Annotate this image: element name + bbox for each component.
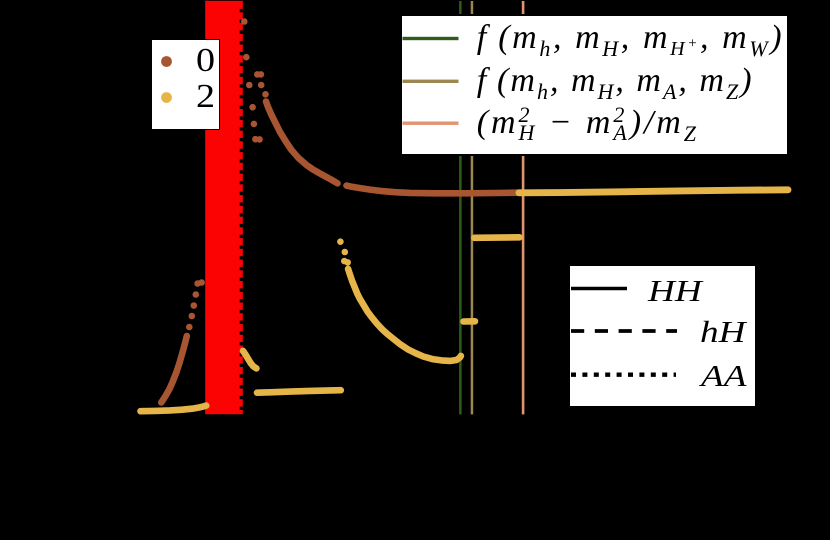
gold scatter: middle branch sparse top dots xyxy=(337,238,344,245)
brown scatter: sparse dots right of band xyxy=(241,18,248,25)
dotted black AA line on band edge xyxy=(240,9,243,12)
legend handle dotted black line AA xyxy=(571,373,676,377)
gold scatter: long flat branch to right edge xyxy=(519,190,788,193)
gold scatter: segment between khaki and salmon lines xyxy=(474,234,519,241)
legend label HH xyxy=(648,275,702,306)
legend label 2 xyxy=(196,80,215,114)
vertical line (mH^2-mA^2)/mZ dark salmon xyxy=(522,1,525,414)
gold scatter: short dash at y~321 xyxy=(464,318,476,325)
brown scatter: rising chain left of band (dense part) xyxy=(161,336,187,403)
legend handle solid black line HH xyxy=(571,287,627,290)
brown scatter: rising chain left of band (sparse dots) xyxy=(186,324,193,331)
legend handle dark khaki line xyxy=(402,79,458,82)
legend label f(mh,mH,mH+,mW) xyxy=(477,17,784,60)
legend label (mH^2-mA^2)/mZ xyxy=(477,102,699,145)
legend label hH xyxy=(700,316,745,347)
legend handle dashed black line hH xyxy=(571,329,677,333)
vertical line f(mh,mH,mA,mZ) dark khaki xyxy=(471,1,474,414)
red exclusion band xyxy=(205,1,243,414)
legend label 0 xyxy=(196,44,215,78)
gold scatter: flat branch left of band xyxy=(141,406,207,412)
legend: decay channels HH / hH / AA xyxy=(569,265,756,407)
vertical line f(mh,mH,mH+,mW) dark green xyxy=(459,1,462,414)
legend marker class 0 (brown dot) xyxy=(152,40,221,132)
legend handle dark salmon line xyxy=(402,121,458,124)
gold scatter: short arc right of band xyxy=(243,351,256,369)
brown scatter: main curve after gap, flattening tail xyxy=(347,186,522,194)
legend handle dark green line xyxy=(402,36,458,39)
gold scatter: middle branch dense curve xyxy=(348,269,461,361)
legend: vertical-line formulas xyxy=(400,14,789,157)
legend label f(mh,mH,mA,mZ) xyxy=(477,60,754,103)
brown scatter: main descending curve xyxy=(266,102,338,184)
gold scatter: flat segment below arc xyxy=(257,390,341,393)
legend label AA xyxy=(701,360,746,391)
legend: scatter classes 0 / 2 xyxy=(151,39,220,131)
